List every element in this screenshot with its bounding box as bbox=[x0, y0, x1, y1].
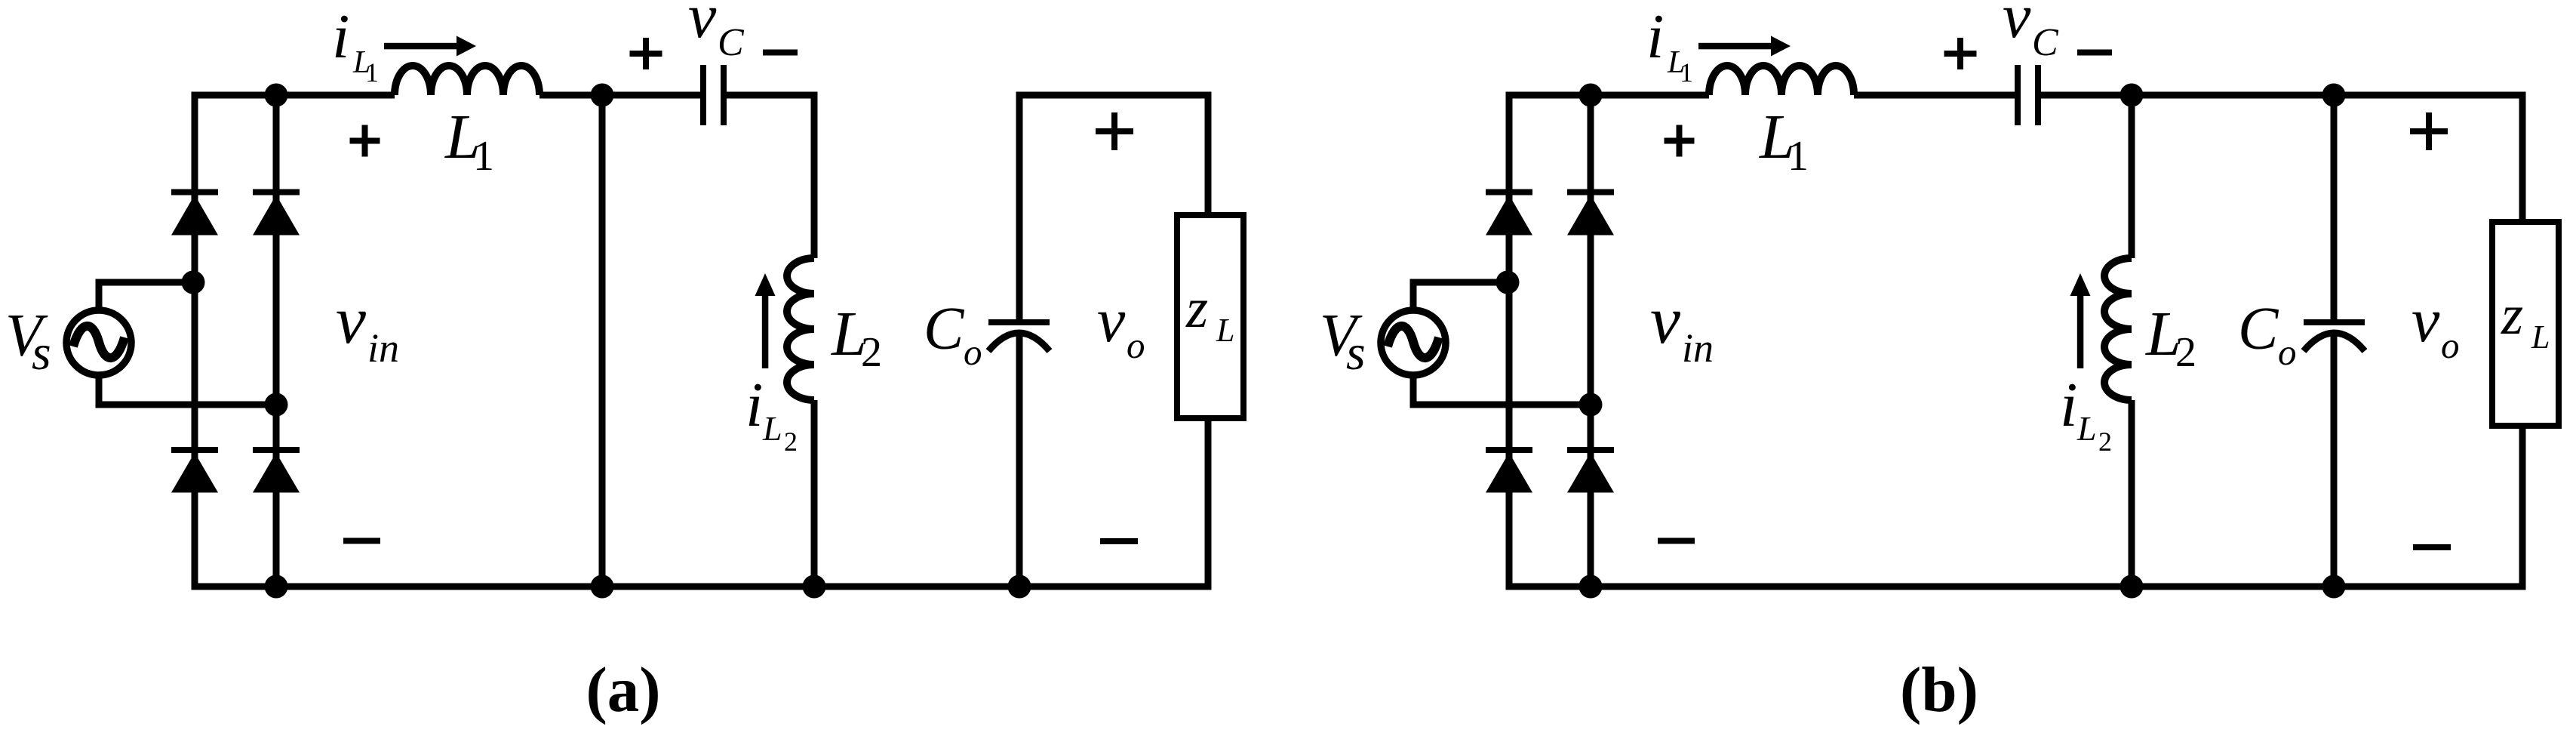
svg-text:1: 1 bbox=[1680, 57, 1693, 88]
node B2: vC-L2 junction top bbox=[2120, 84, 2144, 107]
minus vo (b) bbox=[2413, 544, 2451, 550]
ac source Vs (b) sine bbox=[1388, 326, 1439, 358]
wire: right bridge leg bbox=[273, 95, 280, 587]
wire: source bottom stub to right leg node bbox=[96, 376, 277, 405]
svg-text:1: 1 bbox=[473, 133, 494, 180]
diode D3 (a) lower-left: bar + triangle bbox=[171, 447, 218, 453]
diode D2 (a) upper-right: bar + triangle bbox=[253, 189, 300, 196]
wire: Co vertical top (b) bbox=[2331, 95, 2338, 319]
svg-text:o: o bbox=[964, 331, 982, 373]
svg-text:i: i bbox=[332, 2, 349, 72]
svg-text:C: C bbox=[2238, 296, 2279, 362]
node A8: rail under Co bbox=[1008, 575, 1031, 599]
wire: Co arc to bottom rail bbox=[1016, 333, 1023, 587]
capacitor vC (a) plates bbox=[700, 65, 706, 125]
inductor L2 (a) bumps bbox=[787, 258, 814, 400]
wire: source top stub to left leg node (b) bbox=[1410, 282, 1508, 309]
node B1: top of right bridge leg bbox=[1579, 84, 1603, 107]
inductor L1 (a) bumps bbox=[395, 66, 539, 95]
wire: Co vertical top, output loop top wire, down to ZL box bbox=[1016, 95, 1209, 319]
wire: right bridge leg (b) bbox=[1588, 95, 1594, 587]
node B3: Co junction top bbox=[2322, 84, 2346, 107]
arrow iL2 (a) bbox=[762, 296, 769, 368]
node A3: source top on left leg bbox=[182, 271, 205, 294]
minus vo (a) bbox=[1100, 538, 1138, 544]
wire: L2 bottom to rail (b) bbox=[2129, 400, 2135, 587]
svg-text:s: s bbox=[1346, 325, 1366, 380]
svg-text:v: v bbox=[2003, 0, 2031, 51]
svg-text:z: z bbox=[2501, 284, 2523, 346]
arrow iL1 (a) bbox=[384, 43, 458, 50]
svg-text:(b): (b) bbox=[1900, 654, 1978, 725]
svg-text:C: C bbox=[2032, 21, 2059, 64]
node A2: L1-vC junction bbox=[591, 84, 614, 107]
svg-text:o: o bbox=[2278, 331, 2297, 373]
wire: vC capacitor to Co node to top-right corner, down to ZL box (b) bbox=[2038, 95, 2523, 219]
wire: L2 bottom to rail bbox=[811, 400, 818, 587]
svg-text:1: 1 bbox=[365, 57, 379, 88]
diode D4 (a) lower-right: bar + triangle bbox=[253, 447, 300, 453]
wire: L1 to vC capacitor bbox=[539, 92, 700, 99]
load ZL (a) box bbox=[1177, 215, 1243, 418]
plus vC (b) bbox=[1944, 51, 1977, 57]
ac source Vs (b) circle bbox=[1381, 310, 1446, 375]
svg-text:L: L bbox=[762, 409, 782, 448]
diode D6 (b) upper-right: bar + triangle bbox=[1567, 189, 1614, 196]
svg-text:2: 2 bbox=[2175, 329, 2196, 376]
svg-text:2: 2 bbox=[861, 329, 882, 376]
svg-text:L: L bbox=[1216, 312, 1234, 349]
plus vin (b) bbox=[1665, 138, 1695, 144]
node A1: top of right bridge leg bbox=[265, 84, 288, 107]
wire: source top stub to left leg node bbox=[96, 282, 194, 309]
svg-text:in: in bbox=[367, 325, 399, 371]
svg-text:C: C bbox=[718, 21, 745, 64]
load ZL (b) box bbox=[2492, 222, 2559, 426]
svg-text:o: o bbox=[1127, 325, 1145, 366]
minus vC (a) bbox=[763, 50, 798, 56]
svg-text:v: v bbox=[336, 283, 366, 358]
capacitor Co (b) flat plate bbox=[2304, 319, 2365, 325]
capacitor vC (b) plates bbox=[2015, 65, 2021, 125]
wire: top-left segment + left bridge leg + bottom rail + ZL bottom riser bbox=[192, 95, 1209, 587]
node A7: rail under L2 bbox=[803, 575, 826, 599]
svg-text:2: 2 bbox=[784, 427, 798, 457]
svg-text:C: C bbox=[924, 296, 965, 362]
capacitor Co (a) arc plate bbox=[988, 333, 1050, 351]
diode D7 (b) lower-left: bar + triangle bbox=[1486, 447, 1532, 453]
node B4: source top on left leg bbox=[1496, 271, 1520, 294]
svg-text:s: s bbox=[32, 325, 51, 380]
plus vo (b) bbox=[2410, 128, 2448, 134]
diode D8 (b) lower-right: bar + triangle bbox=[1567, 447, 1614, 453]
svg-text:1: 1 bbox=[1788, 133, 1809, 180]
svg-text:L: L bbox=[2076, 409, 2097, 448]
plus vo (a) bbox=[1096, 128, 1133, 134]
wire: middle vertical from L1-vC node to bottom rail bbox=[599, 95, 606, 587]
capacitor Co (b) arc plate bbox=[2304, 333, 2365, 351]
node B7: rail under L2 bbox=[2120, 575, 2144, 599]
wire: top-left segment + left bridge leg + bottom rail + ZL bottom riser (b) bbox=[1506, 95, 2523, 587]
wire: Co arc to bottom rail (b) bbox=[2331, 333, 2338, 587]
svg-text:i: i bbox=[2060, 370, 2077, 440]
minus vin (b) bbox=[1658, 538, 1695, 544]
node B6: rail under right leg bbox=[1579, 575, 1603, 599]
ac source Vs (a) sine bbox=[73, 326, 124, 358]
svg-text:2: 2 bbox=[2098, 427, 2112, 457]
minus vin (a) bbox=[343, 538, 380, 544]
node A6: rail under middle vertical bbox=[591, 575, 614, 599]
svg-text:v: v bbox=[1650, 283, 1680, 358]
svg-text:z: z bbox=[1185, 277, 1208, 340]
plus vin (a) bbox=[350, 138, 380, 144]
diode D1 (a) upper-left: bar + triangle bbox=[171, 189, 218, 196]
capacitor Co (a) flat plate bbox=[988, 319, 1050, 325]
wire: ZL box bottom to rail (b) bbox=[2519, 429, 2526, 587]
svg-text:(a): (a) bbox=[586, 654, 660, 725]
wire: L1 to vC capacitor (b) bbox=[1854, 92, 2015, 99]
svg-text:o: o bbox=[2441, 325, 2460, 366]
plus vC (a) bbox=[630, 51, 662, 57]
svg-text:v: v bbox=[2412, 285, 2440, 356]
node A5: rail under right leg bbox=[265, 575, 288, 599]
inductor L2 (b) bumps bbox=[2104, 258, 2132, 400]
svg-text:i: i bbox=[1646, 2, 1664, 72]
svg-text:i: i bbox=[745, 370, 763, 440]
svg-text:in: in bbox=[1682, 325, 1714, 371]
minus vC (b) bbox=[2077, 50, 2112, 56]
wire: source bottom stub to right leg node (b) bbox=[1410, 376, 1591, 405]
arrow iL2 (b) bbox=[2077, 296, 2084, 368]
node A4: source bottom on right leg bbox=[265, 393, 288, 417]
svg-text:v: v bbox=[1097, 285, 1126, 356]
svg-text:v: v bbox=[688, 0, 717, 51]
node B8: rail under Co bbox=[2322, 575, 2346, 599]
node B5: source bottom on right leg bbox=[1579, 393, 1603, 417]
ac source Vs (a) circle bbox=[66, 310, 131, 375]
diode D5 (b) upper-left: bar + triangle bbox=[1486, 189, 1532, 196]
wire: vC capacitor to corner, down to L2 top bbox=[724, 92, 818, 259]
inductor L1 (b) bumps bbox=[1709, 66, 1854, 95]
wire: L2 vertical top (b) bbox=[2129, 95, 2135, 258]
svg-text:L: L bbox=[2531, 319, 2550, 356]
arrow iL1 (b) bbox=[1698, 43, 1772, 50]
